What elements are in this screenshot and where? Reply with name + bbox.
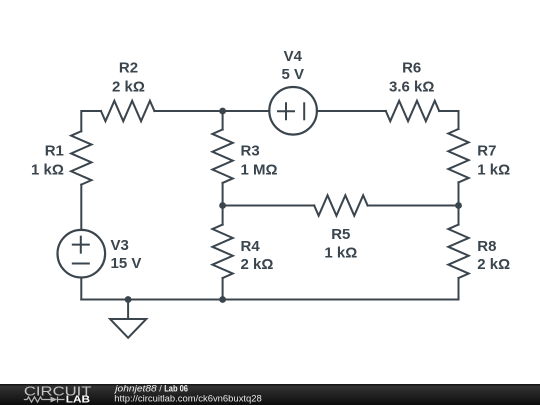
svg-text:R6: R6 — [402, 60, 421, 77]
wire V4 right to R6 left — [317, 110, 386, 112]
ground symbol — [110, 319, 146, 338]
svg-text:V4: V4 — [284, 48, 303, 65]
node C junction dot — [455, 202, 462, 209]
wire R3 top lead (node A down) — [222, 111, 224, 130]
CircuitLab logo resistor squiggle and diode — [24, 397, 65, 403]
svg-text:2 kΩ: 2 kΩ — [477, 256, 510, 273]
wire node C to R8 top — [458, 206, 460, 225]
svg-text:1 kΩ: 1 kΩ — [31, 161, 64, 178]
svg-text:5 V: 5 V — [282, 66, 305, 83]
V4 minus bar — [303, 103, 305, 119]
ground stem wire — [127, 300, 129, 320]
node A junction dot — [219, 108, 226, 115]
footer bar — [0, 384, 540, 405]
svg-text:1 kΩ: 1 kΩ — [477, 161, 510, 178]
svg-text:V3: V3 — [111, 237, 129, 254]
wire R1 bottom to V3 top — [80, 185, 82, 230]
svg-text:2 kΩ: 2 kΩ — [241, 256, 274, 273]
wire bottom rail — [81, 299, 458, 301]
svg-text:R5: R5 — [331, 226, 350, 243]
V3 plus sign — [73, 237, 89, 253]
resistor R3 — [212, 130, 232, 183]
resistor R1 — [71, 131, 91, 184]
wire R3 bottom to node B — [222, 183, 224, 206]
svg-text:R3: R3 — [241, 143, 260, 160]
svg-text:R1: R1 — [45, 143, 64, 160]
wire R4 bottom to bottom rail — [222, 278, 224, 300]
wire R8 bottom to bottom-right corner — [458, 278, 460, 300]
V3 minus sign — [73, 263, 89, 265]
wire node B to R5 left — [223, 205, 315, 207]
svg-text:R7: R7 — [477, 143, 496, 160]
resistor R7 — [448, 129, 468, 182]
wire V3 bottom to bottom rail — [80, 278, 82, 300]
ground junction dot — [125, 296, 132, 303]
svg-text:Lab 06: Lab 06 — [164, 383, 188, 393]
wire R2 right to V4 left (through node A) — [154, 110, 269, 112]
node B junction dot — [219, 202, 226, 209]
svg-text:R8: R8 — [477, 238, 496, 255]
svg-text:1 MΩ: 1 MΩ — [241, 161, 278, 178]
svg-text:1 kΩ: 1 kΩ — [324, 245, 357, 262]
voltage source V4 — [269, 87, 317, 135]
wire top-right corner (R6 right, down to R7 top) — [439, 111, 458, 129]
wire node B to R4 top — [222, 206, 224, 225]
resistor R8 — [448, 225, 468, 278]
resistor R5 — [314, 195, 367, 215]
svg-text:R2: R2 — [119, 60, 138, 77]
wire R7 bottom to node C — [458, 182, 460, 205]
wire R5 right to node C — [368, 205, 459, 207]
svg-text:LAB: LAB — [66, 395, 90, 405]
V4 plus sign — [278, 103, 294, 119]
resistor R4 — [212, 225, 232, 278]
bottom-middle junction dot — [219, 296, 226, 303]
svg-text:15 V: 15 V — [111, 255, 142, 272]
resistor R6 — [386, 101, 439, 121]
resistor R2 — [101, 101, 154, 121]
svg-text:johnjet88: johnjet88 — [114, 383, 157, 393]
svg-text:http://circuitlab.com/ck6vn6bu: http://circuitlab.com/ck6vn6buxtq28 — [114, 393, 262, 403]
svg-text:R4: R4 — [241, 238, 261, 255]
voltage source V3 — [58, 230, 106, 278]
wire top-left corner (R1 top to R2 left lead) — [81, 111, 101, 131]
svg-text:2 kΩ: 2 kΩ — [112, 78, 145, 95]
svg-text:3.6 kΩ: 3.6 kΩ — [389, 78, 434, 95]
